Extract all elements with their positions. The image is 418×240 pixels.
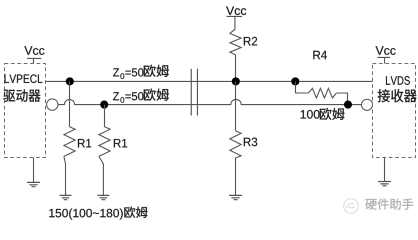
LVPECL driver box: [5, 64, 46, 158]
wire: top differential trace (non-inverting): [46, 80, 373, 82]
wire: R3 to ground: [235, 158, 237, 195]
junction: bottom trace / R4: [344, 101, 352, 109]
ground (receiver box): [378, 158, 391, 186]
label R1 (left): [78, 139, 91, 147]
label LVDS: [386, 76, 410, 85]
receiver inverting input bubble: [361, 99, 372, 110]
ground (R1 left): [60, 195, 72, 199]
label Z0=50欧姆 (bottom trace impedance): [113, 89, 169, 103]
ground (R3): [229, 195, 242, 199]
label R4: [313, 51, 327, 59]
driver inverting output bubble: [47, 99, 58, 110]
label R1 (right): [114, 139, 127, 147]
label R3: [244, 138, 257, 147]
LVDS receiver box: [373, 64, 416, 158]
power Vcc (receiver): [376, 46, 396, 63]
transmission line break bars: [191, 69, 197, 116]
ground (R1 right): [97, 195, 109, 199]
wire: R4 right lead: [336, 93, 347, 105]
label R2: [244, 37, 257, 46]
junction: top trace / R1 left: [66, 77, 74, 85]
wire: bottom differential trace (inverting, with crossover humps): [58, 99, 361, 104]
wire: junction to R3 (passes under hump): [235, 81, 237, 130]
resistor R1 (right): [99, 127, 110, 157]
label LVPECL: [5, 74, 43, 83]
ground (driver box): [27, 158, 40, 187]
label 150(100~180)欧姆 (R1 value): [49, 207, 147, 220]
label 驱动器 (driver): [3, 89, 40, 101]
resistor R1 (left): [64, 127, 75, 157]
label 接收器 (receiver): [378, 89, 417, 102]
wire: R1 right to ground: [99, 156, 104, 195]
power Vcc (termination): [226, 6, 246, 28]
junction: top trace / R4: [291, 77, 299, 85]
resistor R4: [308, 88, 336, 98]
label Z0=50欧姆 (top trace impedance): [113, 65, 169, 79]
resistor R3: [230, 131, 241, 158]
label 100欧姆 (R4 value): [301, 108, 345, 120]
junction: top trace / R2 R3: [232, 77, 240, 85]
wire: R1 right pull-down: [104, 105, 106, 127]
resistor R2: [230, 29, 241, 55]
wire: R4 left lead: [296, 81, 309, 93]
junction: bottom trace / R1 right: [100, 101, 108, 109]
watermark text 硬件助手: [365, 198, 413, 209]
wire: R1 left pull-down: [69, 81, 71, 126]
wire: R2 to junction: [235, 55, 237, 82]
power Vcc (driver): [24, 46, 44, 63]
wire: R1 left to ground: [64, 156, 66, 195]
watermark logo: [344, 199, 359, 214]
